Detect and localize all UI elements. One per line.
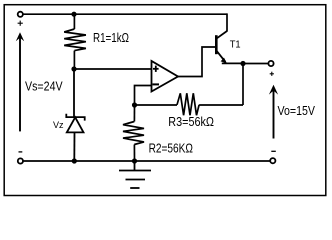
zener diode Vz bbox=[66, 69, 84, 161]
ground bbox=[119, 161, 151, 188]
output + terminal bbox=[268, 61, 273, 66]
input + polarity label bbox=[18, 21, 23, 26]
wire op-amp output to transistor base bbox=[178, 47, 215, 77]
wire node C to output + terminal bbox=[243, 63, 268, 65]
wire top rail bbox=[23, 13, 227, 15]
node R2 bottom / ground on bottom rail bbox=[132, 158, 137, 163]
resistor R1 bbox=[64, 14, 86, 69]
input - terminal bbox=[18, 158, 23, 163]
svg-text:Vz: Vz bbox=[53, 120, 64, 131]
svg-text:R3=56kΩ: R3=56kΩ bbox=[168, 114, 214, 129]
output - terminal bbox=[270, 158, 275, 163]
wire R3 right to output node bbox=[242, 64, 244, 106]
wire op-amp inverting input stub bbox=[135, 86, 152, 106]
wire emitter to output node bbox=[222, 62, 243, 64]
output - polarity label bbox=[271, 150, 276, 152]
svg-text:R1=1kΩ: R1=1kΩ bbox=[93, 30, 129, 45]
voltage source arrow Vs bbox=[16, 32, 24, 131]
transistor T1 bbox=[216, 31, 227, 63]
wire node A to op-amp + input bbox=[74, 68, 152, 70]
input - polarity label bbox=[19, 151, 23, 153]
node zener anode on bottom rail bbox=[72, 158, 77, 163]
wire collector to top rail bbox=[226, 13, 228, 31]
node A : R1 bottom / zener cathode / op-amp + input bbox=[71, 66, 76, 71]
resistor R3 bbox=[135, 93, 244, 115]
wire bottom rail bbox=[23, 160, 270, 162]
svg-text:R2=56KΩ: R2=56KΩ bbox=[149, 141, 194, 156]
output + polarity label bbox=[270, 72, 274, 76]
svg-text:Vs=24V: Vs=24V bbox=[25, 79, 63, 94]
node junction R1 top bbox=[71, 12, 76, 17]
input + terminal bbox=[18, 12, 23, 17]
resistor R2 bbox=[123, 105, 144, 161]
node C : emitter / output bbox=[240, 61, 245, 66]
voltage arrow Vo bbox=[269, 85, 278, 139]
node B : inverting input / R2 top / R3 left bbox=[132, 102, 137, 107]
svg-text:Vo=15V: Vo=15V bbox=[278, 103, 316, 118]
op-amp U1 bbox=[152, 61, 179, 92]
svg-text:T1: T1 bbox=[230, 39, 241, 51]
